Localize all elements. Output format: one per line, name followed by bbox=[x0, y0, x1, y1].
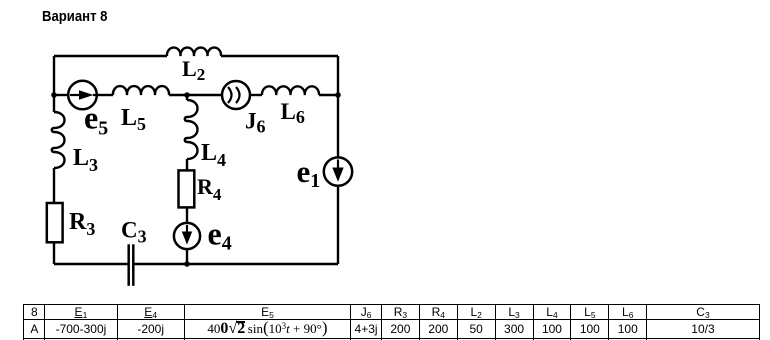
svg-text:L5: L5 bbox=[121, 105, 146, 134]
resistor R4 bbox=[179, 170, 195, 207]
inductor L3 bbox=[52, 112, 65, 168]
wire R4 to e4 bbox=[186, 207, 188, 223]
svg-text:J6: J6 bbox=[245, 109, 266, 137]
inductor L6 bbox=[262, 86, 319, 95]
wire L2 to top-right corner bbox=[221, 55, 338, 57]
source e4 bbox=[174, 223, 200, 249]
svg-text:e1: e1 bbox=[297, 154, 321, 192]
svg-text:L4: L4 bbox=[201, 140, 226, 170]
wire top-left to L2 bbox=[54, 55, 167, 57]
parameter table bbox=[23, 304, 759, 340]
svg-text:L3: L3 bbox=[73, 145, 98, 175]
wire J6 to L6 bbox=[250, 94, 262, 96]
resistor R3 bbox=[47, 203, 63, 242]
wire node to L4 bbox=[186, 95, 188, 100]
inductor L2 bbox=[167, 48, 221, 56]
wire L3 to R3 bbox=[53, 168, 55, 203]
node middle bbox=[184, 92, 190, 98]
svg-text:L2: L2 bbox=[182, 56, 205, 84]
inductor L4 bbox=[185, 100, 198, 159]
wire e5 to L5 bbox=[97, 94, 113, 96]
inductor L5 bbox=[113, 86, 169, 95]
node right bbox=[335, 92, 341, 98]
wire middle node to bottom-right corner bbox=[187, 263, 338, 265]
wire bottom-left to C3 bbox=[54, 263, 128, 265]
current source J6 bbox=[222, 81, 250, 109]
capacitor C3 bbox=[129, 244, 134, 285]
wire L5 to node to J6 bbox=[169, 94, 222, 96]
svg-text:L6: L6 bbox=[281, 99, 305, 127]
wire R3 to bottom-left corner bbox=[53, 242, 55, 264]
wire L4 to R4 bbox=[186, 159, 188, 170]
node left bbox=[51, 92, 57, 98]
wire left side top bbox=[53, 56, 55, 112]
source e5 bbox=[68, 81, 97, 110]
wire e4 to bottom node bbox=[186, 249, 188, 264]
wire L6 to right node bbox=[319, 94, 338, 96]
svg-text:e4: e4 bbox=[208, 215, 232, 254]
source e1 bbox=[324, 157, 352, 185]
node bottom bbox=[184, 261, 190, 267]
wire right side bottom bbox=[337, 186, 339, 264]
wire C3 to middle node bbox=[135, 263, 188, 265]
wire e1 to right node bbox=[337, 95, 339, 157]
svg-text:C3: C3 bbox=[121, 218, 147, 247]
svg-text:e5: e5 bbox=[84, 100, 108, 140]
wire right side top bbox=[337, 56, 339, 95]
radical vinculum over 2 bbox=[236, 321, 245, 323]
svg-text:R4: R4 bbox=[197, 174, 222, 204]
wire left node to e5 bbox=[54, 94, 68, 96]
svg-text:R3: R3 bbox=[69, 209, 95, 239]
